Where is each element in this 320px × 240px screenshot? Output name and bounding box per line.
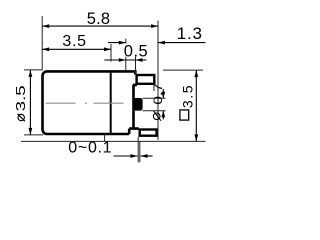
sq 3.5 ext top — [163, 69, 203, 71]
svg-text:0.7: 0.7 — [152, 83, 165, 105]
diameter symbol of dia 0.7 label — [153, 111, 161, 121]
bottom terminal — [140, 130, 157, 136]
thin lines: extension lines — [21, 16, 206, 162]
svg-text:0~0.1: 0~0.1 — [68, 140, 112, 157]
dia 0.7 leader top — [143, 97, 166, 99]
3.5 dim line — [42, 48, 111, 50]
svg-text:0.5: 0.5 — [124, 43, 148, 61]
svg-text:3.5: 3.5 — [179, 84, 195, 108]
top terminal — [137, 75, 155, 84]
sq 3.5 dim line (right, vertical) — [195, 70, 197, 141]
body outline (cylinder side view with seat plate) — [43, 71, 139, 134]
seating plane line — [21, 140, 206, 142]
svg-text:3.5: 3.5 — [62, 33, 86, 50]
dimension lines with arrows — [29, 24, 206, 158]
dimension texts — [14, 10, 203, 157]
center lead (0.7 dia tab), solid — [132, 98, 142, 111]
1.3 dim: left arrow segment — [108, 42, 126, 44]
5.8 dim line — [42, 25, 158, 27]
centerline — [46, 102, 133, 104]
0~0.1 ext lines — [137, 137, 139, 163]
dia 3.5 ext top — [24, 69, 43, 71]
diameter symbol of dia 3.5 label — [18, 114, 25, 121]
ext lines 0.5 (left ext broken around text) — [125, 39, 127, 71]
svg-text:1.3: 1.3 — [177, 24, 203, 43]
0~0.1 arrows (outside, horizontal) — [114, 155, 138, 157]
svg-text:5.8: 5.8 — [87, 10, 111, 28]
square symbol of sq 3.5 label — [180, 110, 189, 120]
dia 0.7 leader bottom — [143, 110, 166, 112]
ext line x=111 for 3.5 top — [110, 44, 112, 62]
dia 3.5 dim line (left, vertical) — [29, 70, 31, 135]
ext line left (x=42.2) for 5.8 — [41, 16, 43, 69]
0.5 dim line + outside arrows — [104, 59, 146, 61]
1.3 dim: right segment — [158, 42, 206, 44]
body/plate internal edge line — [110, 72, 112, 134]
dia 0.7 arrows (outside, vertical) — [162, 89, 164, 119]
dia 3.5 ext bottom — [24, 134, 43, 136]
standoff reference tick — [104, 135, 106, 142]
svg-text:3.5: 3.5 — [14, 85, 29, 111]
ext line right (x=158) for 5.8 / 1.3 — [157, 21, 159, 141]
